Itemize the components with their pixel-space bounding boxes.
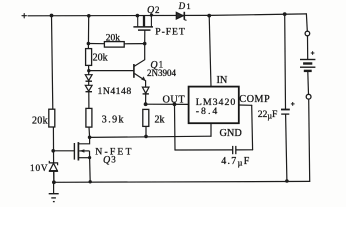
transistor Q1 2N3904 (134, 64, 146, 81)
svg-text:20k: 20k (93, 52, 108, 63)
wire gnd bus (90, 136, 211, 137)
svg-text:4.7µF: 4.7µF (221, 156, 250, 168)
resistor 20k (horizontal) body (104, 42, 124, 48)
wire second rail top (87, 16, 89, 49)
capacitor 22uF (281, 102, 295, 114)
wire 2k to bus (145, 126, 147, 136)
wire battery rail mid (307, 72, 310, 95)
wire left rail lower (52, 127, 54, 163)
diode at Q1 emitter (142, 87, 149, 94)
diode 1N4148 upper (85, 75, 92, 82)
op-amp U1 LM3420 box (189, 87, 239, 124)
wire diode3 to OUT node (145, 94, 147, 104)
svg-text:1: 1 (186, 1, 190, 11)
wire 22uF rail upper (284, 14, 287, 109)
zener diode 10V (49, 161, 58, 171)
svg-text:Q: Q (147, 5, 155, 16)
svg-text:P-FET: P-FET (155, 27, 185, 38)
svg-text:GND: GND (220, 128, 243, 139)
ground (49, 182, 59, 201)
wire battery rail upper (307, 36, 309, 59)
wire top rail (28, 14, 306, 16)
svg-text:10V: 10V (30, 164, 48, 174)
svg-text:20k: 20k (106, 34, 121, 44)
node + input positive terminal mark (22, 14, 26, 18)
wire 22uF rail lower (286, 114, 287, 181)
resistor 2k body (143, 109, 149, 126)
resistor 3.9k body (86, 108, 92, 127)
battery terminal circle lower (306, 94, 311, 99)
capacitor 4.7uF (233, 146, 236, 154)
wire zener to bottom (53, 171, 55, 182)
wire second rail between diodes (88, 81, 90, 85)
wire compensation lower left (175, 149, 232, 151)
wire IN pin (209, 16, 211, 87)
transistor Q2 P-FET symbol (133, 15, 153, 30)
svg-text:1N4148: 1N4148 (98, 86, 132, 97)
svg-text:-8.4: -8.4 (196, 106, 220, 117)
svg-text:2N3904: 2N3904 (147, 68, 176, 78)
wire battery rail top corner (305, 14, 308, 31)
wire gate of Q3 (53, 150, 74, 152)
wire OUT branch down (174, 104, 177, 150)
svg-text:IN: IN (217, 75, 228, 86)
wire left rail (52, 15, 53, 109)
battery terminal circle upper (305, 31, 310, 36)
diode D1 (176, 12, 186, 21)
resistor 20k (horizontal) leads (88, 43, 104, 45)
svg-text:20k: 20k (32, 115, 48, 126)
wire second rail below diodes (88, 92, 90, 109)
svg-text:22µF: 22µF (258, 109, 278, 121)
wire battery rail lower (309, 99, 310, 181)
battery B1 (300, 51, 315, 71)
resistor 20k (left rail) body (49, 109, 55, 127)
resistor 20k (second rail vertical) body (86, 49, 92, 66)
transistor Q3 N-FET (74, 137, 90, 182)
svg-text:3.9k: 3.9k (102, 115, 125, 126)
diode 1N4148 lower (85, 85, 92, 91)
wire Q1 base (89, 70, 134, 72)
svg-text:D: D (178, 1, 186, 11)
svg-text:2k: 2k (155, 115, 165, 126)
svg-text:3: 3 (111, 154, 116, 164)
wire second rail to bus (88, 127, 91, 137)
node junction dots (50, 12, 289, 184)
wire Q1 emitter to diode (145, 81, 147, 87)
wire left rail to bottom (53, 171, 55, 182)
svg-text:2: 2 (155, 5, 160, 15)
wire OUT pin (146, 103, 189, 105)
wire bottom rail (54, 180, 310, 183)
wire COMP vertical (251, 105, 254, 150)
wire Q2 gate lead (144, 30, 146, 43)
wire GND pin stub (210, 123, 212, 136)
wire compensation lower right (236, 149, 252, 151)
wire second rail middle (88, 65, 90, 74)
wire Q1 collector (135, 44, 145, 67)
svg-text:COMP: COMP (239, 94, 270, 105)
wire COMP pin (239, 104, 252, 106)
svg-text:OUT: OUT (163, 94, 186, 105)
svg-text:Q: Q (103, 155, 111, 166)
